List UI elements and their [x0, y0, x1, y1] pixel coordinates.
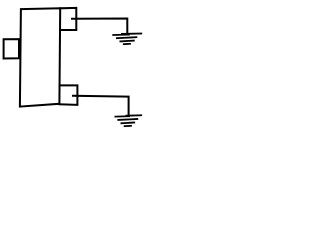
pin box left	[4, 39, 20, 58]
component body U1	[20, 8, 60, 106]
pin box top-right	[60, 8, 76, 30]
pin box bottom-right	[59, 85, 77, 105]
ground GND2	[115, 115, 141, 126]
wire bottom pin to ground	[73, 96, 129, 115]
ground GND1	[113, 34, 141, 45]
wire top pin to ground	[72, 19, 127, 34]
